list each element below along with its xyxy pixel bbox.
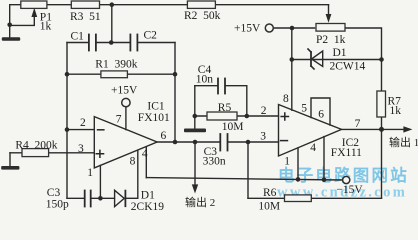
svg-text:P2 1k: P2 1k — [316, 34, 346, 46]
svg-text:4: 4 — [142, 148, 148, 160]
svg-text:D1: D1 — [333, 47, 347, 59]
svg-text:R6: R6 — [263, 187, 277, 199]
svg-text:2: 2 — [80, 117, 86, 129]
svg-text:4: 4 — [310, 142, 316, 154]
svg-text:FX101: FX101 — [138, 112, 170, 124]
svg-text:R3 51: R3 51 — [70, 11, 101, 23]
svg-text:R5: R5 — [218, 102, 232, 114]
svg-text:输出 2: 输出 2 — [185, 195, 215, 209]
svg-text:150p: 150p — [46, 199, 69, 211]
svg-text:8: 8 — [130, 156, 136, 168]
svg-text:2CW14: 2CW14 — [330, 61, 366, 73]
svg-text:3: 3 — [260, 131, 266, 143]
svg-text:IC1: IC1 — [147, 101, 165, 113]
svg-text:1: 1 — [284, 156, 290, 168]
svg-text:C1: C1 — [71, 30, 85, 42]
svg-text:FX111: FX111 — [331, 147, 362, 159]
svg-text:330n: 330n — [203, 155, 226, 167]
svg-text:7: 7 — [116, 113, 122, 125]
svg-text:1k: 1k — [390, 105, 402, 117]
svg-text:2: 2 — [261, 105, 267, 117]
svg-text:C3: C3 — [47, 187, 61, 199]
svg-text:C2: C2 — [144, 29, 158, 41]
svg-text:D1: D1 — [141, 189, 155, 201]
svg-text:3: 3 — [78, 143, 84, 155]
svg-text:10n: 10n — [196, 73, 214, 85]
svg-text:+15V: +15V — [111, 85, 138, 97]
svg-text:7: 7 — [355, 118, 361, 130]
svg-text:2CK19: 2CK19 — [131, 201, 164, 212]
svg-text:R4 200k: R4 200k — [15, 140, 57, 152]
svg-text:R1 390k: R1 390k — [95, 59, 137, 71]
svg-text:8: 8 — [283, 93, 289, 105]
svg-text:1: 1 — [87, 167, 93, 179]
svg-text:10M: 10M — [222, 121, 244, 133]
svg-text:输出 1: 输出 1 — [389, 135, 418, 149]
svg-text:6: 6 — [161, 130, 167, 142]
svg-text:−15V: −15V — [336, 184, 363, 196]
svg-text:R2 50k: R2 50k — [184, 10, 221, 22]
svg-text:1k: 1k — [40, 20, 52, 32]
svg-text:+15V: +15V — [234, 22, 261, 34]
svg-text:10M: 10M — [258, 201, 280, 212]
svg-text:6: 6 — [318, 109, 324, 121]
svg-text:5: 5 — [301, 102, 307, 114]
